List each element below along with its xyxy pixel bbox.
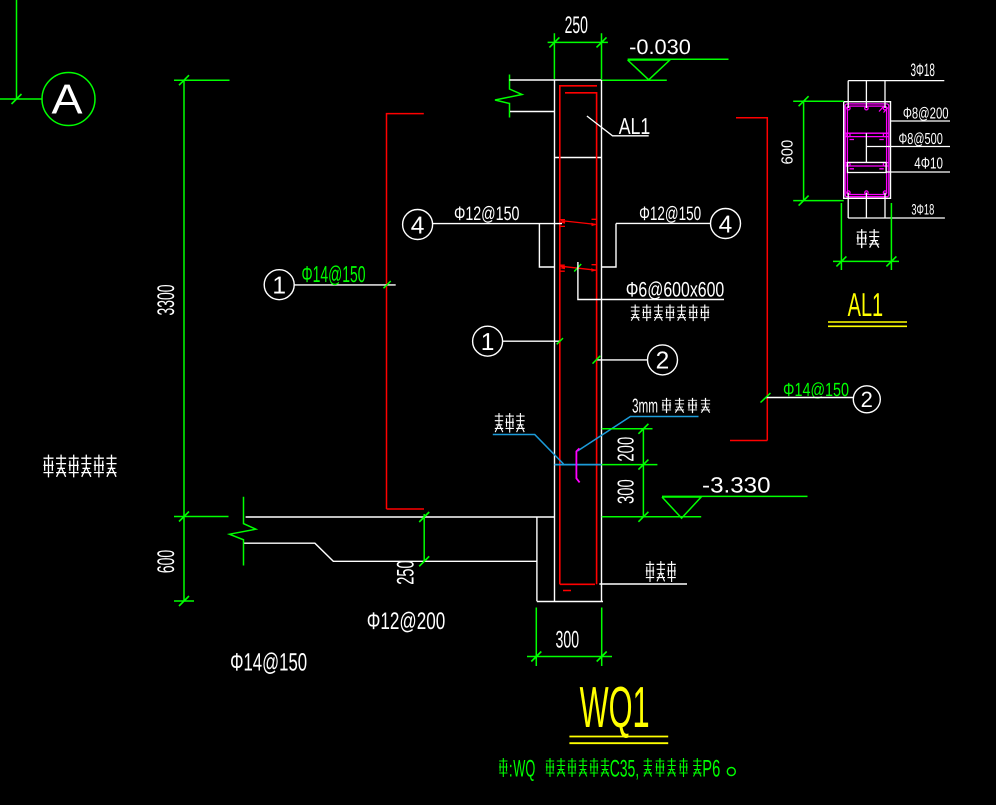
note text [499,758,701,777]
label 建筑构造底板 [43,455,116,478]
svg-text:A: A [52,76,83,123]
AL1 bottom bars extension [848,193,885,218]
callout 1 wall circle [473,326,503,356]
construction joint cyan line [555,464,602,466]
lap splice mark lower [560,265,597,272]
break line left bottom [230,497,256,566]
dim 250 left [419,512,429,566]
svg-text:Φ8@500: Φ8@500 [899,131,943,148]
svg-text:-3.330: -3.330 [702,473,771,498]
lap splice mark upper [560,219,597,226]
dim 300 bottom [527,608,612,667]
svg-text:3300: 3300 [153,285,180,316]
label 双向梅花形布置 [631,304,709,321]
lap zone offset box left [539,224,554,268]
svg-text:1: 1 [272,273,286,300]
dimension 3300 vertical line [174,75,230,606]
label 3phi18 bottom [848,217,945,219]
leader 基础梁 [599,583,687,585]
svg-text:Φ12@200: Φ12@200 [367,608,446,635]
green tick on lower lap [574,264,581,272]
svg-text:Φ14@150: Φ14@150 [230,649,307,677]
leader cyan 施工缝 [493,435,564,465]
AL1 dim 600 [793,96,844,205]
svg-text:4: 4 [411,212,425,239]
leader 1 left [294,284,395,286]
callout 4 left circle [403,210,433,240]
svg-text:C35,: C35, [610,756,640,783]
grid bubble A [42,73,95,126]
break line top left of wall [495,75,522,118]
red bracket left [387,114,425,509]
svg-text:300: 300 [612,479,638,504]
leader cyan 3mm止水钢板 [578,417,699,452]
svg-text:200: 200 [612,437,638,462]
label phi8@200 [891,120,951,122]
callout 4 right circle [711,209,741,239]
top slab lines [510,80,602,112]
svg-text:Φ12@150: Φ12@150 [454,203,520,225]
axis line A [0,0,42,104]
dim 200/300 [602,424,702,522]
svg-text:4Φ10: 4Φ10 [914,155,943,172]
AL1 tie white vertical [865,133,867,162]
leader 2 wall [597,359,647,361]
leader 4 right [616,222,711,224]
AL1 top bars extension [848,81,885,108]
callout 2 wall circle [648,345,678,375]
svg-text:Φ6@600x600: Φ6@600x600 [626,279,725,302]
dim 250 top [548,33,608,79]
svg-text:WQ1: WQ1 [580,675,650,740]
AL1 stirrup middle band 1 [845,133,889,139]
wall W1 outline [555,80,602,602]
svg-text:Φ14@150: Φ14@150 [302,261,366,287]
wall rebar red curtain 1 [560,86,597,585]
AL1 section outer rect [844,102,891,199]
AL1 tie white rect 4phi10 [848,162,887,172]
AL1 dim 墙宽 [833,203,899,270]
label 基础梁 [646,561,676,582]
svg-text:Φ12@150: Φ12@150 [639,203,701,225]
svg-text:3mm: 3mm [632,396,658,418]
svg-text:AL1: AL1 [848,286,884,323]
svg-text:3Φ18: 3Φ18 [911,201,934,218]
wall rebar red curtain 2 [565,93,597,585]
label phi8@500 [866,146,950,148]
callout 2 right circle [853,386,880,413]
svg-text:P6: P6 [702,756,720,783]
svg-text:AL1: AL1 [619,113,651,139]
red bracket right [730,118,767,441]
leader 1 wall [503,340,560,342]
svg-text:2: 2 [861,387,873,412]
svg-text:1: 1 [481,329,495,356]
wall rebar red bottom [560,584,595,590]
leader phi14 right [766,397,853,399]
AL1 rebar dots [847,107,887,195]
svg-text:4: 4 [719,211,733,238]
AL1 stirrup magenta double [845,104,889,197]
lap zone offset box right [602,224,617,268]
svg-text:600: 600 [780,140,797,165]
waterstop plate magenta [576,448,579,482]
label 施工缝 [495,413,525,433]
svg-text:-0.030: -0.030 [629,36,691,59]
svg-text:300: 300 [556,627,580,654]
svg-text:2: 2 [656,348,670,375]
svg-text::: : [509,757,513,782]
AL1 stirrup middle band 2 [845,163,889,169]
svg-text:600: 600 [153,550,180,574]
foundation slab left profile [244,517,603,602]
label 3phi18 top [848,80,944,82]
label 4phi10 [886,171,950,173]
svg-text:WQ: WQ [513,756,535,783]
svg-text:Φ8@200: Φ8@200 [903,105,949,122]
phi6 leader [578,262,724,300]
AL1 diagonal dashes top right [879,107,888,113]
svg-text:250: 250 [393,560,420,584]
callout 1 left circle [264,270,294,300]
svg-text:3Φ18: 3Φ18 [911,60,935,80]
leader 4 left [433,223,562,225]
svg-text:250: 250 [565,12,588,39]
